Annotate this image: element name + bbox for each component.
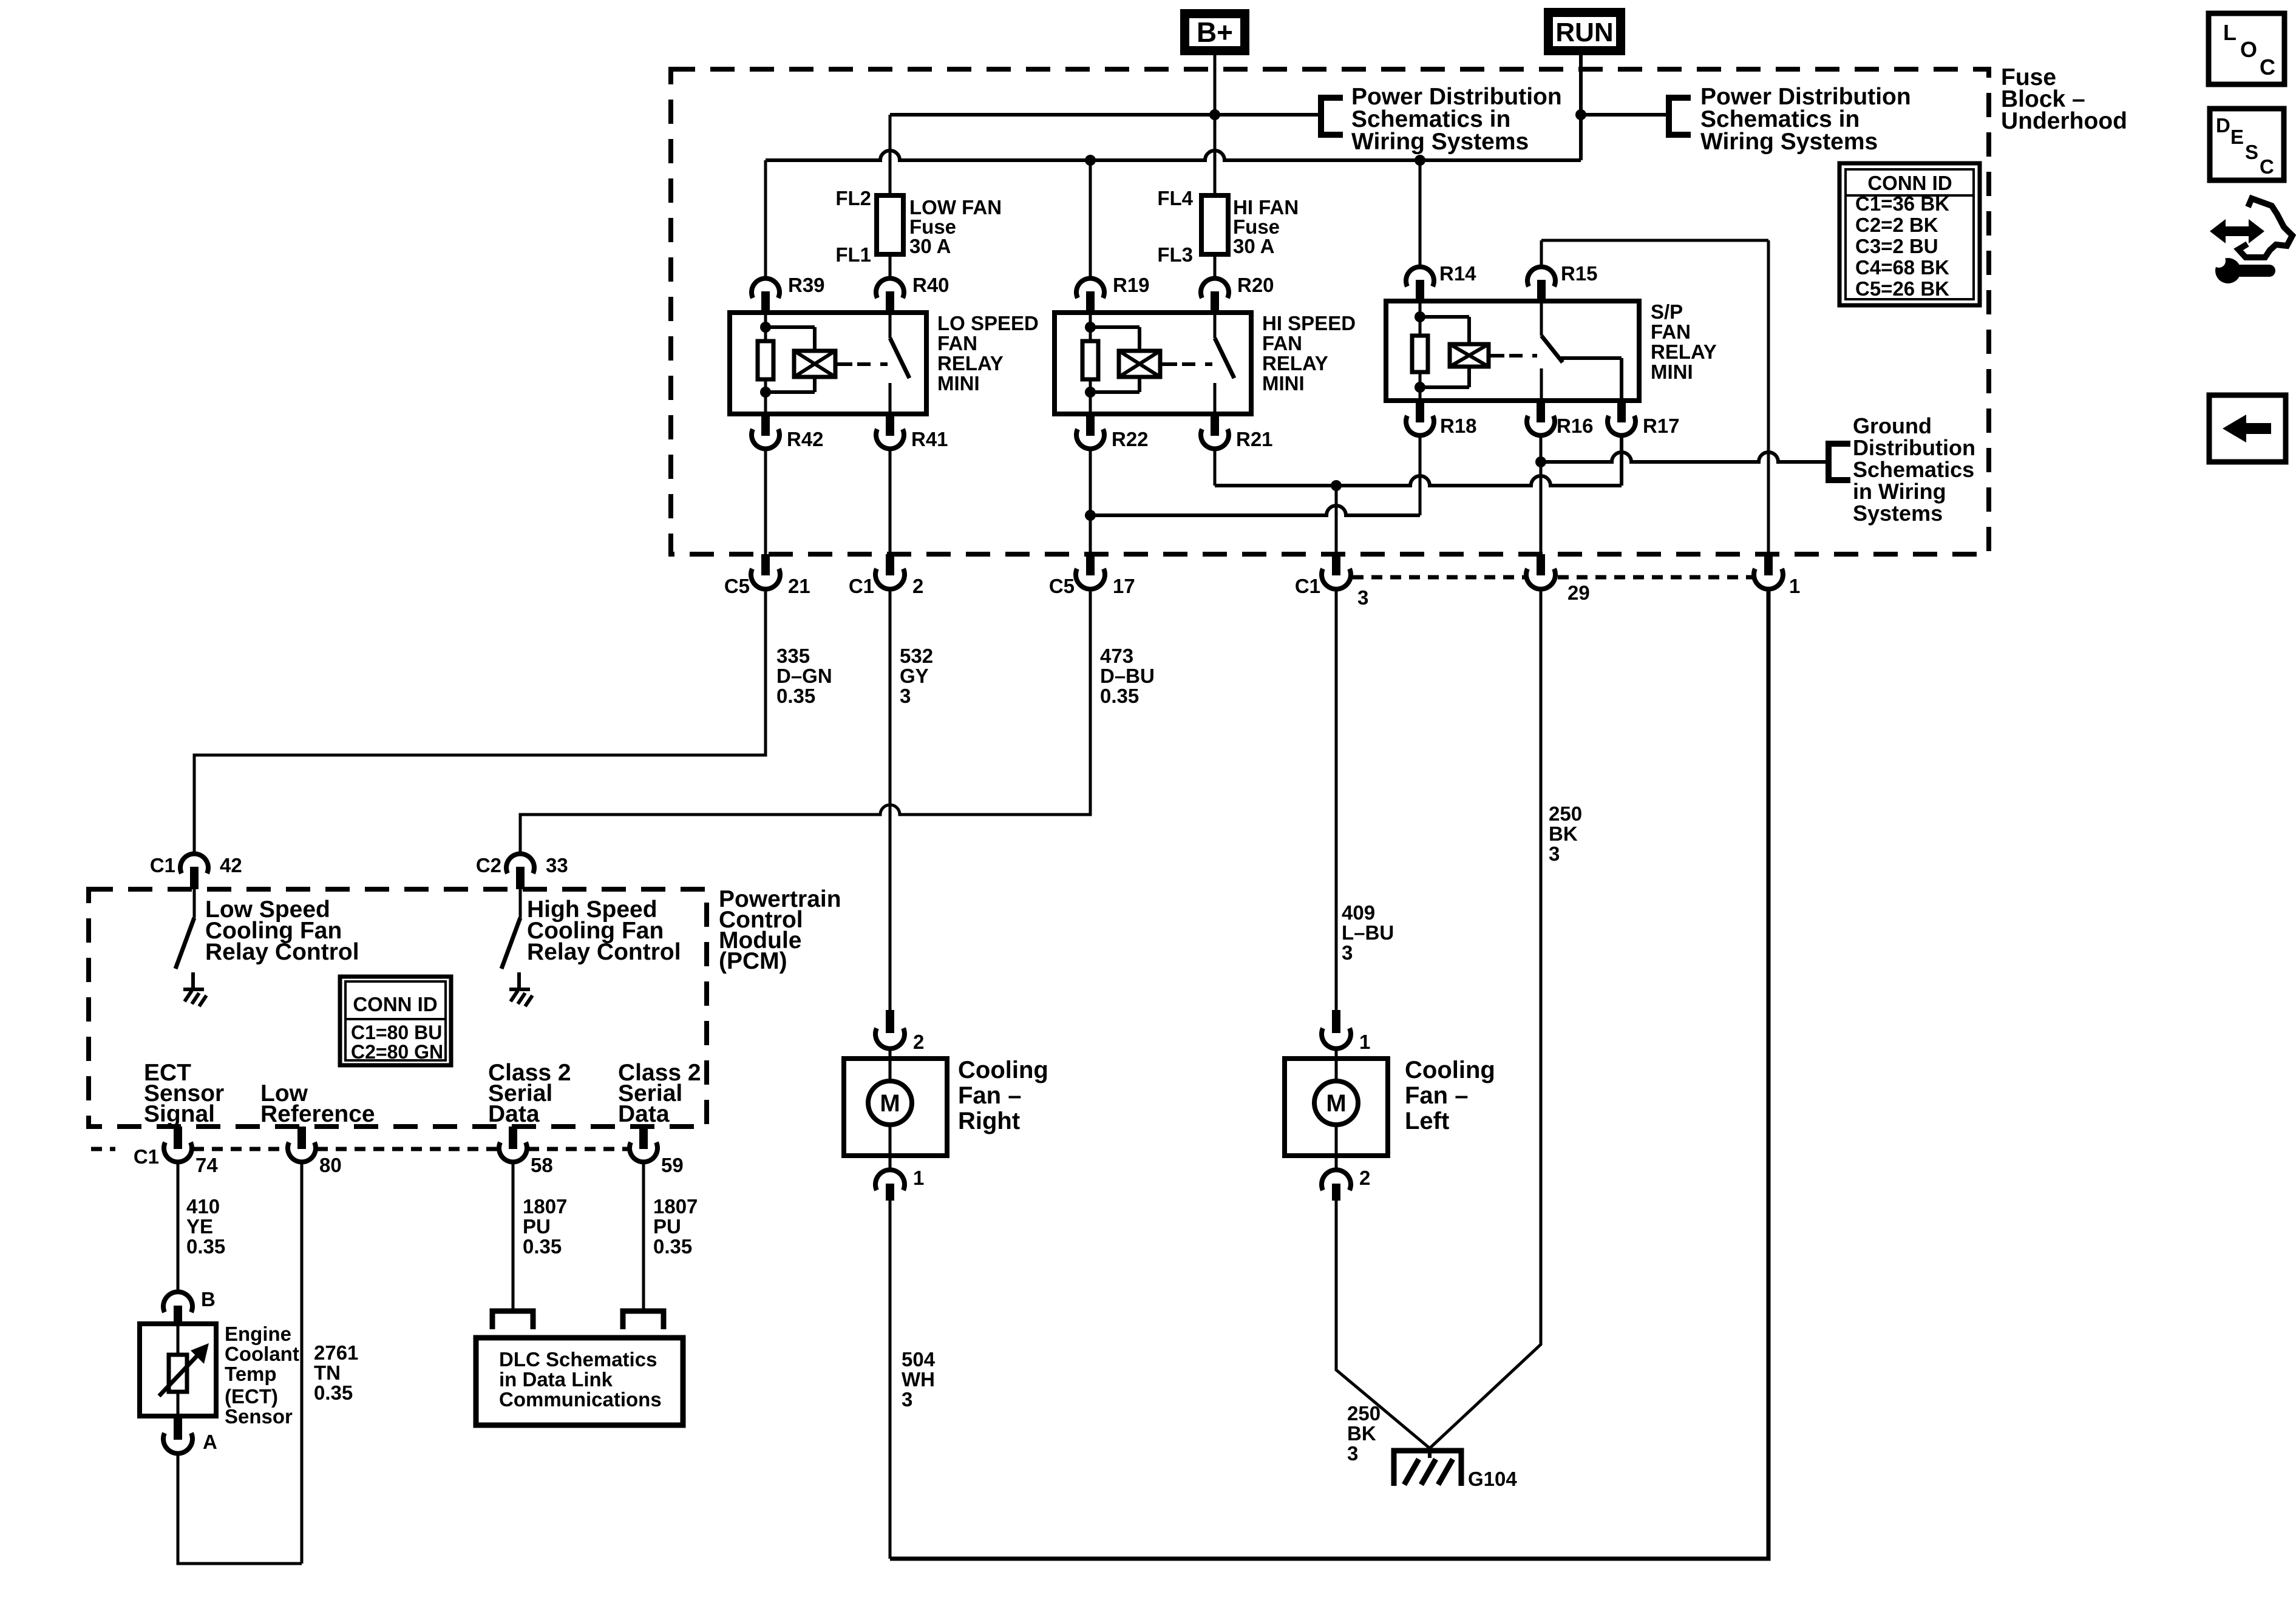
connector pin C1-3: [1332, 554, 1340, 575]
svg-text:0.35: 0.35: [653, 1235, 692, 1258]
relay K-HI switch: [1214, 313, 1217, 338]
relay K-LO junction dots: [760, 322, 771, 333]
svg-text:Cooling: Cooling: [958, 1057, 1048, 1083]
connector pin C1-2: [886, 554, 894, 575]
svg-text:R41: R41: [911, 428, 948, 450]
connector pin 2 (fan right): [886, 1010, 894, 1033]
svg-text:2761: 2761: [314, 1341, 358, 1364]
wire R39 coil feed drop: [764, 160, 767, 279]
icon back arrow box: [2209, 395, 2286, 462]
relay K-SP switch output to R17: [1561, 356, 1622, 360]
wire R16 to pin 29: [1540, 435, 1543, 554]
svg-text:R19: R19: [1113, 274, 1150, 296]
svg-text:504: 504: [902, 1348, 936, 1371]
svg-text:L–BU: L–BU: [1342, 921, 1394, 944]
ground G104 symbol: [1428, 1448, 1432, 1458]
connector pin R15: [1527, 267, 1555, 286]
bracket to Power Distribution (left): [1318, 96, 1324, 137]
wire 1807 PU (pin 59 to DLC): [642, 1162, 645, 1311]
svg-text:R17: R17: [1643, 415, 1680, 437]
relay K-HI actuating link: [1160, 362, 1177, 366]
svg-text:2: 2: [913, 1031, 924, 1053]
wire 409 L-BU (pin 3 to fan left): [1335, 589, 1338, 1010]
svg-text:Right: Right: [958, 1108, 1020, 1134]
svg-text:0.35: 0.35: [776, 685, 815, 707]
fuse FL2/FL1 LOW FAN body: [877, 195, 903, 254]
svg-text:(PCM): (PCM): [719, 948, 787, 974]
node junction R14 tap: [1415, 155, 1425, 166]
svg-text:1: 1: [1359, 1031, 1370, 1053]
wire bus C (RUN to relay coils): [766, 151, 1581, 160]
svg-text:L: L: [2223, 20, 2237, 45]
table CONN ID (PCM): [340, 977, 451, 1065]
svg-text:RELAY: RELAY: [1651, 341, 1717, 363]
wire 410 YE (pin 74 to ECT B): [177, 1162, 180, 1294]
svg-text:Sensor: Sensor: [225, 1405, 293, 1428]
svg-text:29: 29: [1567, 581, 1590, 604]
svg-text:C1=36 BK: C1=36 BK: [1855, 192, 1949, 215]
svg-text:3: 3: [1347, 1442, 1358, 1465]
svg-text:17: 17: [1113, 575, 1135, 597]
svg-text:Distribution: Distribution: [1853, 435, 1975, 460]
svg-text:1807: 1807: [523, 1195, 567, 1218]
connector pin 1 (fan right): [889, 1156, 892, 1171]
wire R22 to pin 17: [1089, 449, 1092, 554]
svg-text:RELAY: RELAY: [1262, 352, 1328, 374]
connector pin 2 (fan left): [1335, 1156, 1338, 1171]
svg-text:FAN: FAN: [1262, 332, 1302, 354]
relay K-SP resistor: [1412, 336, 1428, 372]
relay K-HI coil branch: [1090, 325, 1140, 329]
svg-text:80: 80: [319, 1154, 342, 1176]
svg-text:C: C: [2260, 155, 2274, 178]
sensor ECT thermistor: [169, 1355, 187, 1392]
icon LOC box: [2209, 13, 2284, 84]
wire R41 to pin 2: [889, 449, 892, 554]
wire 250 BK ground return (pin 1 riser and bottom bus): [890, 589, 1768, 1559]
wire FL2 feed drop: [889, 115, 892, 195]
svg-text:S: S: [2245, 141, 2258, 163]
svg-text:O: O: [2240, 37, 2257, 62]
svg-text:Left: Left: [1405, 1108, 1449, 1134]
connector pin R41: [886, 414, 894, 436]
table CONN ID (fuse block): [1839, 163, 1980, 305]
connector pin C1-42: [193, 755, 196, 856]
relay K-SP actuating link: [1489, 354, 1504, 358]
wire RUN vertical feed: [1579, 55, 1583, 160]
power node RUN box: [1544, 8, 1625, 55]
connector pin C5-17: [1086, 554, 1095, 575]
relay K-HI coil wire: [1089, 313, 1092, 343]
relay K-SP box (S/P FAN RELAY MINI): [1386, 301, 1639, 401]
wire ground bus Y1: [1541, 452, 1829, 462]
wire 473 D-BU (pin 17 to PCM 33): [520, 589, 1090, 855]
svg-text:MINI: MINI: [1651, 361, 1693, 383]
relay K-LO coil wire: [764, 313, 767, 343]
svg-text:R18: R18: [1440, 415, 1477, 437]
connector pin R19: [1076, 279, 1104, 298]
connector pin R20: [1201, 279, 1229, 298]
svg-text:74: 74: [195, 1154, 218, 1176]
svg-text:410: 410: [186, 1195, 220, 1218]
svg-text:C1: C1: [849, 575, 874, 597]
svg-text:E: E: [2230, 126, 2244, 148]
svg-text:Relay Control: Relay Control: [527, 939, 681, 965]
svg-text:Ground: Ground: [1853, 413, 1932, 438]
svg-text:FL3: FL3: [1157, 243, 1193, 266]
svg-text:R15: R15: [1561, 262, 1598, 285]
svg-text:Engine: Engine: [225, 1323, 291, 1345]
svg-text:R42: R42: [787, 428, 824, 450]
svg-text:1: 1: [913, 1167, 924, 1189]
svg-text:YE: YE: [186, 1215, 213, 1238]
bracket to Power Distribution (right): [1666, 96, 1672, 137]
svg-text:C5: C5: [724, 575, 750, 597]
svg-text:C2: C2: [476, 854, 501, 876]
svg-text:532: 532: [900, 645, 933, 667]
wire R21 drop: [1214, 449, 1217, 486]
svg-text:FL4: FL4: [1157, 187, 1193, 209]
relay K-HI resistor: [1082, 341, 1098, 379]
svg-text:R39: R39: [788, 274, 825, 296]
svg-text:Fan –: Fan –: [958, 1082, 1021, 1109]
svg-text:RELAY: RELAY: [937, 352, 1004, 374]
svg-text:1: 1: [1789, 575, 1800, 597]
svg-text:TN: TN: [314, 1361, 341, 1384]
svg-text:250: 250: [1347, 1402, 1381, 1425]
relay K-SP coil wire: [1419, 301, 1422, 337]
svg-text:R21: R21: [1236, 428, 1273, 450]
wire 250 BK (pin 29 to G104): [1430, 589, 1541, 1448]
node junction R22/R18: [1085, 510, 1096, 521]
relay K-LO actuating link: [835, 362, 852, 366]
svg-text:BK: BK: [1347, 1422, 1376, 1445]
wire bus B (RUN distribution): [1581, 113, 1669, 117]
fuse FL4/FL3 HI FAN body: [1201, 195, 1228, 254]
dotted connector row C1 (pins 3-29-1): [1353, 575, 1525, 580]
wire R42 to pin 21: [764, 449, 767, 554]
relay K-LO coil (X box): [794, 351, 835, 377]
svg-text:2: 2: [912, 575, 923, 597]
connector pin C1-74: [174, 1127, 182, 1149]
svg-text:MINI: MINI: [1262, 372, 1305, 395]
svg-text:C1: C1: [150, 854, 175, 876]
wire 250 BK (fan left to G104): [1336, 1201, 1430, 1448]
relay K-SP switch: [1540, 301, 1543, 336]
relay K-SP junction dots: [1415, 311, 1425, 322]
svg-text:G104: G104: [1468, 1468, 1517, 1490]
svg-text:409: 409: [1342, 901, 1375, 924]
svg-text:WH: WH: [902, 1368, 935, 1391]
svg-text:FL2: FL2: [835, 187, 871, 209]
svg-text:C1: C1: [134, 1145, 159, 1168]
svg-text:DLC Schematics: DLC Schematics: [499, 1348, 657, 1371]
svg-text:0.35: 0.35: [314, 1381, 353, 1404]
svg-text:Signal: Signal: [144, 1101, 215, 1127]
node junction pin3 tap: [1331, 480, 1342, 491]
svg-text:D–GN: D–GN: [776, 665, 832, 687]
svg-text:250: 250: [1549, 802, 1582, 825]
node junction R19 tap: [1085, 155, 1096, 166]
svg-text:0.35: 0.35: [1100, 685, 1139, 707]
node junction B+ on bus A: [1209, 109, 1220, 120]
svg-text:42: 42: [220, 854, 242, 876]
dotted connector row C1 (PCM): [91, 1147, 115, 1151]
connector pin R40: [876, 279, 904, 298]
svg-text:CONN ID: CONN ID: [353, 993, 437, 1015]
connector pin R17: [1617, 401, 1626, 422]
svg-text:GY: GY: [900, 665, 929, 687]
PCM high speed relay driver switch: [519, 889, 522, 918]
wire 1807 PU (pin 58 to DLC): [512, 1162, 515, 1311]
svg-text:Coolant: Coolant: [225, 1343, 299, 1365]
svg-text:RUN: RUN: [1555, 18, 1613, 47]
wire R15 feed from pin 1 riser: [1540, 240, 1543, 268]
wire 335 D-GN (pin 21 to PCM 42): [194, 589, 766, 855]
svg-text:PU: PU: [653, 1215, 681, 1238]
svg-text:in Data Link: in Data Link: [499, 1368, 613, 1391]
svg-text:Fan –: Fan –: [1405, 1082, 1468, 1109]
fuse block underhood dashed boundary: [671, 69, 1989, 554]
bracket to Ground Distribution: [1826, 442, 1832, 482]
power node B+ box: [1180, 9, 1249, 55]
node junction RUN on bus B: [1575, 109, 1586, 120]
svg-text:in Wiring: in Wiring: [1853, 479, 1946, 504]
svg-text:C: C: [2260, 55, 2275, 80]
svg-text:0.35: 0.35: [186, 1235, 225, 1258]
connector pin R21: [1211, 414, 1219, 436]
svg-text:Temp: Temp: [225, 1363, 277, 1385]
svg-text:3: 3: [1342, 941, 1353, 964]
svg-text:3: 3: [1357, 586, 1368, 609]
svg-text:R22: R22: [1112, 428, 1149, 450]
svg-text:HI SPEED: HI SPEED: [1262, 312, 1356, 334]
terminal bracket (pin 59): [623, 1311, 664, 1329]
relay K-LO coil branch: [766, 325, 815, 329]
svg-text:FAN: FAN: [937, 332, 977, 354]
svg-text:C3=2 BU: C3=2 BU: [1855, 235, 1938, 257]
svg-text:A: A: [203, 1431, 217, 1453]
wire B+ vertical feed: [1214, 55, 1217, 195]
svg-text:R40: R40: [912, 274, 949, 296]
connector pin A (ECT): [174, 1416, 182, 1440]
connector pin C5-21: [761, 554, 770, 575]
wire 2761 TN (pin 80 down): [301, 1162, 304, 1564]
svg-text:C1=80 BU: C1=80 BU: [351, 1022, 442, 1043]
svg-text:30 A: 30 A: [909, 235, 951, 257]
svg-text:0.35: 0.35: [523, 1235, 562, 1258]
svg-text:C5=26 BK: C5=26 BK: [1855, 277, 1949, 300]
svg-text:D–BU: D–BU: [1100, 665, 1155, 687]
svg-text:FAN: FAN: [1651, 320, 1691, 343]
svg-text:Schematics: Schematics: [1853, 457, 1974, 482]
svg-text:B+: B+: [1197, 16, 1233, 48]
wire pin 3 riser: [1335, 486, 1338, 554]
relay K-SP coil branch: [1420, 315, 1469, 319]
wire bus A (B+ distribution): [890, 113, 1321, 117]
svg-text:(ECT): (ECT): [225, 1385, 278, 1408]
connector pin R14: [1406, 267, 1434, 286]
svg-text:30 A: 30 A: [1233, 235, 1274, 257]
svg-text:CONN ID: CONN ID: [1867, 172, 1952, 194]
wire R14 coil feed drop: [1419, 160, 1422, 268]
svg-text:Systems: Systems: [1853, 501, 1943, 526]
svg-text:Data: Data: [488, 1101, 540, 1127]
connector pin R16: [1537, 401, 1545, 422]
relay K-LO box (LO SPEED FAN RELAY MINI): [730, 313, 926, 414]
relay K-SP coil (X box): [1450, 344, 1489, 367]
svg-text:PU: PU: [523, 1215, 551, 1238]
connector pin 80: [297, 1127, 306, 1149]
connector pin 58: [509, 1127, 517, 1149]
wire R18 to R22 link: [1090, 506, 1420, 515]
svg-text:Reference: Reference: [260, 1101, 375, 1127]
wire ECT A return loop: [178, 1453, 302, 1564]
svg-text:D: D: [2216, 114, 2230, 137]
svg-text:R14: R14: [1439, 262, 1476, 285]
relay K-HI box (HI SPEED FAN RELAY MINI): [1055, 313, 1251, 414]
svg-text:R16: R16: [1557, 415, 1594, 437]
svg-text:58: 58: [531, 1154, 553, 1176]
PCM dashed boundary: [89, 889, 707, 1127]
svg-text:C2=2 BK: C2=2 BK: [1855, 214, 1938, 236]
svg-text:R20: R20: [1237, 274, 1274, 296]
connector pin 1 (fan left): [1332, 1010, 1340, 1033]
wire net Y2 (R21-R17): [1215, 476, 1622, 486]
svg-text:Wiring Systems: Wiring Systems: [1700, 129, 1878, 155]
svg-text:3: 3: [1549, 842, 1560, 865]
svg-text:Cooling: Cooling: [1405, 1057, 1495, 1083]
connector pin 29: [1537, 554, 1545, 575]
PCM low speed relay driver switch: [193, 889, 196, 918]
svg-text:1807: 1807: [653, 1195, 698, 1218]
svg-text:B: B: [201, 1288, 216, 1310]
wire R18 drop: [1419, 435, 1422, 515]
svg-text:C1: C1: [1295, 575, 1320, 597]
connector pin 59: [639, 1127, 648, 1149]
connector pin R39: [752, 279, 779, 298]
svg-text:Communications: Communications: [499, 1388, 662, 1411]
svg-text:Data: Data: [618, 1101, 670, 1127]
svg-text:21: 21: [788, 575, 810, 597]
svg-text:3: 3: [902, 1388, 912, 1411]
svg-text:Relay Control: Relay Control: [205, 939, 359, 965]
node junction ground bus: [1535, 456, 1546, 467]
icon hand with wrench: [2210, 219, 2264, 243]
wire 532 GY (pin 2 to fan right): [889, 589, 892, 1010]
svg-text:335: 335: [776, 645, 810, 667]
svg-text:C5: C5: [1049, 575, 1075, 597]
wire 504 WH (fan right to ground bus): [889, 1201, 892, 1559]
wire R19 coil feed drop: [1089, 160, 1092, 279]
svg-text:BK: BK: [1549, 822, 1578, 845]
relay K-LO switch: [889, 313, 892, 338]
svg-text:33: 33: [546, 854, 568, 876]
sensor ECT variable arrow: [159, 1352, 200, 1396]
connector pin R18: [1416, 401, 1424, 422]
relay K-HI junction dots: [1085, 322, 1096, 333]
sensor ECT wire: [177, 1324, 180, 1355]
svg-text:FL1: FL1: [835, 243, 871, 266]
svg-text:MINI: MINI: [937, 372, 980, 395]
motor Cooling Fan Left: [1285, 1059, 1388, 1156]
relay K-HI coil (X box): [1119, 351, 1160, 377]
box DLC Schematics: [476, 1338, 683, 1425]
motor Cooling Fan Right: [844, 1059, 947, 1156]
svg-text:Underhood: Underhood: [2001, 108, 2127, 134]
connector pin R42: [761, 414, 770, 436]
terminal bracket (pin 58): [492, 1311, 533, 1329]
svg-text:M: M: [880, 1090, 900, 1117]
svg-text:Wiring Systems: Wiring Systems: [1351, 129, 1529, 155]
svg-text:473: 473: [1100, 645, 1133, 667]
connector pin C2-33: [519, 815, 522, 856]
relay K-LO resistor: [758, 341, 773, 379]
svg-text:S/P: S/P: [1651, 300, 1683, 323]
connector pin B (ECT): [163, 1292, 192, 1312]
svg-text:2: 2: [1359, 1167, 1370, 1189]
svg-text:M: M: [1326, 1090, 1346, 1117]
svg-text:C4=68 BK: C4=68 BK: [1855, 256, 1949, 279]
connector pin R22: [1086, 414, 1095, 436]
icon DESC box: [2210, 109, 2284, 180]
svg-text:3: 3: [900, 685, 911, 707]
svg-text:C2=80 GN: C2=80 GN: [351, 1041, 443, 1063]
sensor ECT box: [140, 1324, 216, 1416]
svg-text:59: 59: [661, 1154, 684, 1176]
svg-text:LO SPEED: LO SPEED: [937, 312, 1039, 334]
connector pin 1: [1764, 554, 1773, 575]
